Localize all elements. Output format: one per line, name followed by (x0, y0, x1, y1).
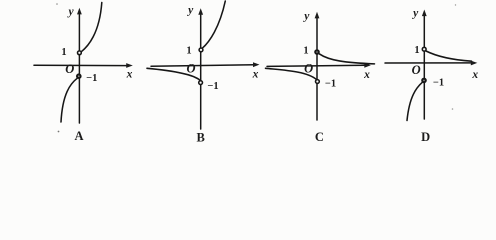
svg-text:O: O (304, 62, 313, 76)
svg-text:O: O (65, 62, 74, 76)
graph A curve left branch (plunge below -1) (61, 78, 77, 122)
graph A y-axis arrowhead (77, 8, 82, 15)
graph A y-axis (78, 13, 80, 123)
graph B y-axis (200, 14, 202, 130)
svg-text:−1: −1 (325, 79, 336, 90)
graph C open circle at (0,-1) (316, 80, 320, 84)
graph C curve left branch (asymptotic from left to (0,-1)) (266, 68, 317, 79)
graph D open circle at (0,1) (422, 47, 426, 51)
svg-text:1: 1 (303, 46, 308, 57)
svg-text:y: y (302, 11, 310, 23)
svg-text:y: y (66, 6, 74, 18)
svg-text:y: y (411, 8, 419, 20)
graph D curve left branch (plunge below -1) (407, 82, 422, 120)
graph A open circle at (0,1) (78, 51, 82, 55)
svg-text:B: B (197, 131, 205, 145)
graph C curve right branch (decay toward +x axis) (319, 54, 374, 64)
scan speck near top of A (56, 3, 58, 5)
svg-text:A: A (74, 129, 83, 143)
svg-text:1: 1 (414, 45, 419, 56)
graph C x-axis arrowhead (364, 63, 371, 68)
graph B open circle at (0,-1) (199, 81, 203, 85)
graph D x-axis arrowhead (471, 61, 478, 66)
graph B curve right branch (rising exponential) (202, 1, 225, 48)
svg-text:x: x (252, 69, 259, 81)
graph C y-axis arrowhead (315, 12, 320, 19)
svg-text:x: x (363, 69, 370, 81)
graph C circle at (0,1) (315, 50, 319, 54)
svg-text:C: C (315, 130, 324, 144)
svg-text:x: x (471, 69, 478, 81)
svg-text:D: D (421, 130, 430, 144)
svg-text:1: 1 (61, 47, 66, 58)
svg-text:O: O (412, 63, 421, 77)
graph A curve right branch (rising exponential) (81, 3, 102, 52)
scan speck top right (455, 4, 456, 5)
graph A x-axis arrowhead (126, 63, 133, 68)
graph A x-axis (34, 64, 128, 66)
graph C y-axis (316, 17, 318, 120)
svg-text:−1: −1 (86, 73, 97, 84)
graph B curve left branch (asymptotic from left to (0,-1)) (147, 68, 200, 80)
svg-text:y: y (186, 5, 194, 17)
graph D y-axis arrowhead (422, 10, 427, 17)
graph D circle at (0,-1) (422, 79, 426, 83)
graph C x-axis (267, 65, 366, 66)
svg-text:O: O (186, 62, 195, 76)
graph D y-axis (423, 15, 425, 120)
graph D curve right branch (decay toward +x axis) (426, 51, 472, 61)
graph B y-axis arrowhead (198, 8, 203, 15)
graph B x-axis arrowhead (253, 62, 260, 67)
graph D x-axis (385, 62, 472, 64)
svg-text:x: x (126, 69, 133, 81)
graph B x-axis (151, 65, 255, 67)
scan speck right of D plunge (452, 108, 454, 110)
svg-text:−1: −1 (207, 81, 218, 92)
svg-text:−1: −1 (433, 78, 444, 89)
scan speck below A curve tip (58, 131, 60, 133)
graph A circle at (0,-1) (77, 74, 81, 78)
svg-text:1: 1 (186, 46, 191, 57)
graph B open circle at (0,1) (199, 48, 203, 52)
